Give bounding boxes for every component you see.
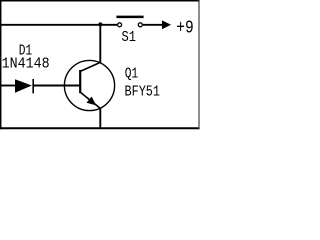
switch S1 contact left (118, 23, 122, 27)
diode D1 cathode bar (32, 79, 34, 93)
diode D1 triangle (15, 79, 32, 92)
wire diode to base (33, 85, 80, 87)
wire collector vertical (99, 25, 101, 63)
supply arrow head (162, 20, 171, 29)
border frame left (0, 0, 2, 129)
node collector junction (98, 22, 102, 26)
wire diode anode (1, 85, 16, 87)
wire top rail to switch (1, 24, 117, 26)
transistor Q1 body circle (64, 60, 114, 110)
border frame bottom (0, 127, 200, 129)
transistor Q1 emitter lead (80, 92, 100, 108)
transistor Q1 emitter arrow (87, 97, 97, 106)
svg-text:1N4148: 1N4148 (2, 55, 50, 72)
border frame right (198, 0, 200, 129)
svg-text:Q1: Q1 (125, 66, 139, 83)
svg-text:+9: +9 (176, 19, 194, 39)
svg-text:BFY51: BFY51 (125, 83, 161, 100)
wire switch to supply arrow (143, 24, 163, 26)
transistor Q1 base bar (79, 70, 81, 93)
svg-text:S1: S1 (122, 29, 137, 46)
wire emitter to bottom rail (99, 108, 101, 128)
switch S1 actuator bar (116, 16, 143, 19)
switch S1 contact right (138, 23, 142, 27)
transistor Q1 collector lead (80, 62, 100, 71)
border frame top (0, 0, 200, 2)
